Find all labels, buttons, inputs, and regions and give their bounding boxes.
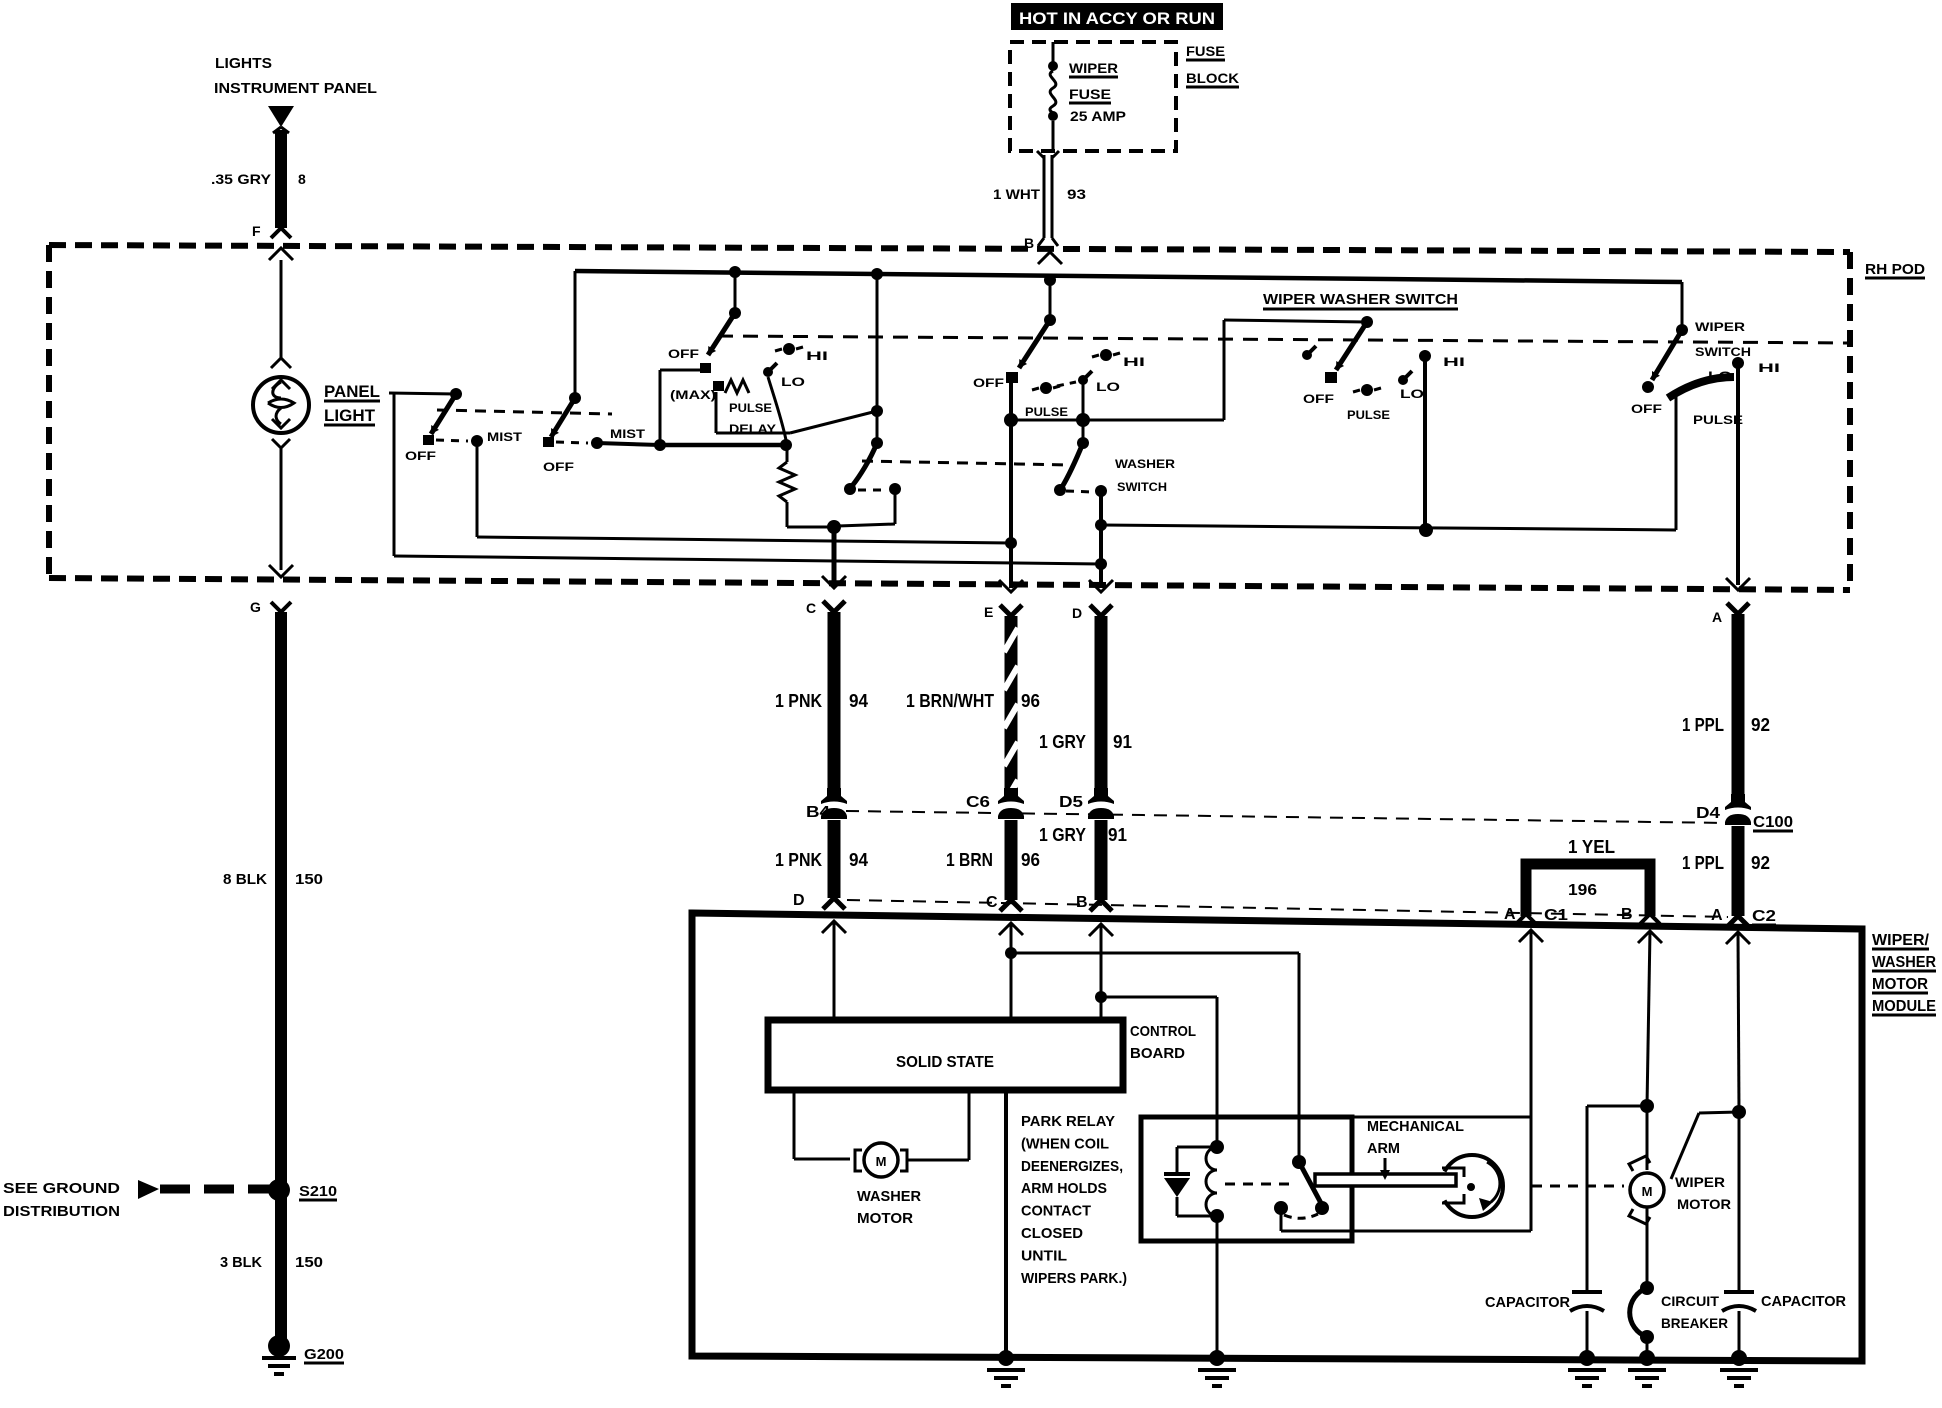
svg-text:OFF: OFF	[1631, 402, 1662, 416]
svg-text:BOARD: BOARD	[1130, 1045, 1185, 1062]
svg-text:SEE GROUND: SEE GROUND	[3, 1180, 120, 1197]
svg-text:MODULE: MODULE	[1872, 998, 1936, 1015]
svg-text:C2: C2	[1752, 908, 1776, 925]
svg-text:92: 92	[1751, 853, 1770, 873]
svg-text:1 PPL: 1 PPL	[1682, 853, 1724, 873]
svg-text:8 BLK: 8 BLK	[223, 871, 267, 888]
svg-text:ARM HOLDS: ARM HOLDS	[1021, 1180, 1107, 1197]
svg-text:WIPER/: WIPER/	[1872, 932, 1930, 949]
svg-text:PANEL: PANEL	[324, 382, 380, 401]
svg-text:WIPERS PARK.): WIPERS PARK.)	[1021, 1270, 1127, 1287]
svg-text:SWITCH: SWITCH	[1695, 345, 1751, 359]
svg-text:CIRCUIT: CIRCUIT	[1661, 1293, 1719, 1309]
svg-text:8: 8	[298, 171, 306, 187]
svg-text:FUSE: FUSE	[1069, 86, 1111, 102]
svg-text:MECHANICAL: MECHANICAL	[1367, 1118, 1464, 1135]
svg-text:DISTRIBUTION: DISTRIBUTION	[3, 1203, 120, 1220]
svg-text:MOTOR: MOTOR	[1677, 1196, 1731, 1212]
svg-text:MOTOR: MOTOR	[1872, 976, 1928, 993]
svg-text:A: A	[1712, 609, 1722, 625]
svg-text:.35 GRY: .35 GRY	[211, 171, 272, 187]
svg-text:1 BRN/WHT: 1 BRN/WHT	[906, 691, 994, 711]
svg-text:A: A	[1504, 906, 1516, 923]
svg-text:BLOCK: BLOCK	[1186, 70, 1239, 86]
svg-text:MOTOR: MOTOR	[857, 1210, 913, 1227]
svg-text:1 WHT: 1 WHT	[993, 186, 1040, 202]
svg-text:LO: LO	[1400, 387, 1424, 401]
svg-text:C6: C6	[966, 794, 990, 811]
svg-text:MIST: MIST	[487, 430, 523, 444]
svg-text:CAPACITOR: CAPACITOR	[1761, 1293, 1846, 1310]
svg-text:A: A	[1711, 907, 1723, 924]
svg-text:MIST: MIST	[610, 427, 646, 441]
svg-text:DEENERGIZES,: DEENERGIZES,	[1021, 1158, 1123, 1175]
svg-text:(WHEN COIL: (WHEN COIL	[1021, 1135, 1109, 1152]
svg-text:150: 150	[295, 1254, 323, 1271]
svg-text:HI: HI	[1443, 355, 1465, 369]
svg-text:WIPER: WIPER	[1695, 320, 1745, 334]
svg-text:OFF: OFF	[1303, 392, 1334, 406]
svg-text:S210: S210	[299, 1183, 337, 1200]
svg-text:BREAKER: BREAKER	[1661, 1315, 1728, 1331]
svg-text:94: 94	[849, 850, 868, 870]
svg-text:INSTRUMENT PANEL: INSTRUMENT PANEL	[214, 80, 377, 97]
svg-text:94: 94	[849, 691, 868, 711]
svg-text:25 AMP: 25 AMP	[1070, 108, 1126, 124]
svg-text:B: B	[1621, 906, 1633, 923]
svg-text:RH POD: RH POD	[1865, 261, 1925, 278]
svg-text:LO: LO	[781, 375, 805, 389]
svg-text:HI: HI	[806, 349, 828, 363]
svg-text:WASHER: WASHER	[857, 1188, 921, 1205]
svg-text:G: G	[250, 599, 261, 615]
svg-text:D: D	[793, 892, 805, 909]
svg-text:CONTROL: CONTROL	[1130, 1023, 1196, 1040]
svg-text:HI: HI	[1758, 361, 1780, 375]
svg-text:ARM: ARM	[1367, 1140, 1400, 1157]
svg-text:CONTACT: CONTACT	[1021, 1203, 1091, 1220]
svg-text:UNTIL: UNTIL	[1021, 1247, 1067, 1264]
svg-text:OFF: OFF	[543, 460, 574, 474]
svg-text:WIPER: WIPER	[1069, 60, 1118, 76]
svg-text:93: 93	[1067, 186, 1086, 202]
svg-text:1 YEL: 1 YEL	[1568, 837, 1615, 857]
svg-text:B: B	[1076, 894, 1088, 911]
svg-text:LIGHTS: LIGHTS	[215, 55, 272, 72]
svg-text:1 BRN: 1 BRN	[946, 850, 993, 870]
svg-text:91: 91	[1108, 825, 1127, 845]
svg-text:3 BLK: 3 BLK	[220, 1254, 262, 1271]
svg-text:PULSE: PULSE	[729, 401, 772, 415]
svg-text:96: 96	[1021, 691, 1040, 711]
svg-text:G200: G200	[304, 1346, 344, 1363]
svg-text:LO: LO	[1708, 369, 1732, 383]
svg-text:96: 96	[1021, 850, 1040, 870]
svg-text:OFF: OFF	[405, 449, 436, 463]
svg-text:WIPER: WIPER	[1675, 1174, 1725, 1190]
svg-text:C100: C100	[1753, 814, 1793, 831]
svg-text:1 GRY: 1 GRY	[1039, 825, 1086, 845]
svg-text:91: 91	[1113, 732, 1132, 752]
svg-text:HI: HI	[1123, 355, 1145, 369]
svg-text:LO: LO	[1096, 380, 1120, 394]
svg-text:D5: D5	[1059, 794, 1083, 811]
svg-text:WIPER WASHER SWITCH: WIPER WASHER SWITCH	[1263, 291, 1458, 308]
svg-text:CAPACITOR: CAPACITOR	[1485, 1294, 1570, 1311]
svg-text:CLOSED: CLOSED	[1021, 1225, 1083, 1242]
svg-text:PULSE: PULSE	[1693, 413, 1743, 427]
svg-text:WASHER: WASHER	[1115, 457, 1175, 471]
svg-text:1 GRY: 1 GRY	[1039, 732, 1086, 752]
svg-text:LIGHT: LIGHT	[324, 406, 376, 425]
svg-text:DELAY: DELAY	[729, 422, 776, 436]
svg-text:150: 150	[295, 871, 323, 888]
svg-text:1 PNK: 1 PNK	[775, 850, 822, 870]
svg-text:SWITCH: SWITCH	[1117, 480, 1167, 494]
svg-text:F: F	[252, 223, 261, 239]
svg-text:FUSE: FUSE	[1186, 43, 1225, 59]
svg-text:OFF: OFF	[973, 376, 1004, 390]
svg-text:196: 196	[1568, 882, 1597, 899]
svg-text:M: M	[876, 1154, 887, 1169]
svg-text:HOT IN ACCY OR RUN: HOT IN ACCY OR RUN	[1019, 9, 1215, 28]
svg-text:PULSE: PULSE	[1347, 408, 1390, 422]
svg-text:PARK RELAY: PARK RELAY	[1021, 1113, 1115, 1130]
svg-text:SOLID STATE: SOLID STATE	[896, 1054, 994, 1071]
svg-text:OFF: OFF	[668, 347, 699, 361]
svg-text:92: 92	[1751, 715, 1770, 735]
svg-text:M: M	[1642, 1184, 1653, 1199]
svg-text:1 PPL: 1 PPL	[1682, 715, 1724, 735]
svg-text:C: C	[806, 600, 816, 616]
svg-text:WASHER: WASHER	[1872, 954, 1936, 971]
svg-text:E: E	[984, 604, 993, 620]
svg-text:D4: D4	[1696, 805, 1720, 822]
svg-text:D: D	[1072, 605, 1082, 621]
svg-text:B4: B4	[806, 804, 830, 821]
svg-text:PULSE: PULSE	[1025, 405, 1068, 419]
svg-text:(MAX): (MAX)	[670, 388, 716, 402]
svg-text:1 PNK: 1 PNK	[775, 691, 822, 711]
